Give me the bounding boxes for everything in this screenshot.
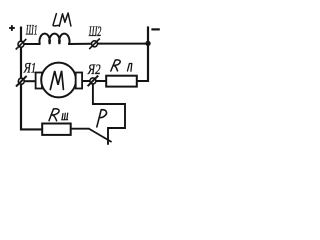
terminal Ya1 — [16, 76, 27, 87]
wire Rd to right rail — [137, 80, 149, 82]
resistor Rsh — [42, 124, 70, 135]
terminal Ya2 — [88, 76, 99, 87]
wire armature left (Ya1 to brush) — [24, 80, 36, 82]
wire Ya2 down — [93, 84, 125, 145]
terminal Sh2 — [89, 39, 100, 50]
svg-text:Я1: Я1 — [23, 61, 36, 77]
label M in motor — [50, 71, 63, 90]
motor brush right — [76, 73, 82, 89]
switch P blade — [89, 129, 112, 142]
motor brush left — [36, 73, 42, 89]
label P switch — [97, 110, 107, 127]
wire coil to Sh2 — [68, 43, 91, 45]
junction node top-right — [145, 41, 150, 46]
label Rp subscript P — [127, 63, 132, 71]
wire left rail — [20, 27, 22, 131]
inductor LM (shunt field winding) — [40, 34, 70, 44]
label Rp (starting resistor) — [111, 60, 120, 71]
wire Ya2 to resistor Rd — [96, 80, 107, 82]
label Rsh — [49, 109, 59, 121]
wire top from Sh1 to coil — [24, 43, 41, 45]
svg-text:Ш1: Ш1 — [25, 22, 37, 38]
svg-text:Ш2: Ш2 — [88, 24, 101, 40]
wire bottom from left rail to Rsh — [20, 128, 42, 130]
plus terminal symbol — [9, 25, 15, 31]
wire brush to Ya2 — [82, 80, 90, 82]
resistor Rd — [106, 76, 137, 87]
wire Rsh to switch pivot — [71, 128, 90, 130]
wire Sh2 to right rail — [98, 43, 149, 45]
label Rsh subscript Sh — [62, 113, 68, 120]
label LM — [53, 13, 71, 26]
minus terminal symbol — [151, 28, 159, 30]
svg-text:Я2: Я2 — [87, 62, 101, 78]
terminal Sh1 — [16, 39, 27, 50]
motor M1 armature circle — [41, 63, 76, 98]
wire right rail — [147, 26, 149, 82]
